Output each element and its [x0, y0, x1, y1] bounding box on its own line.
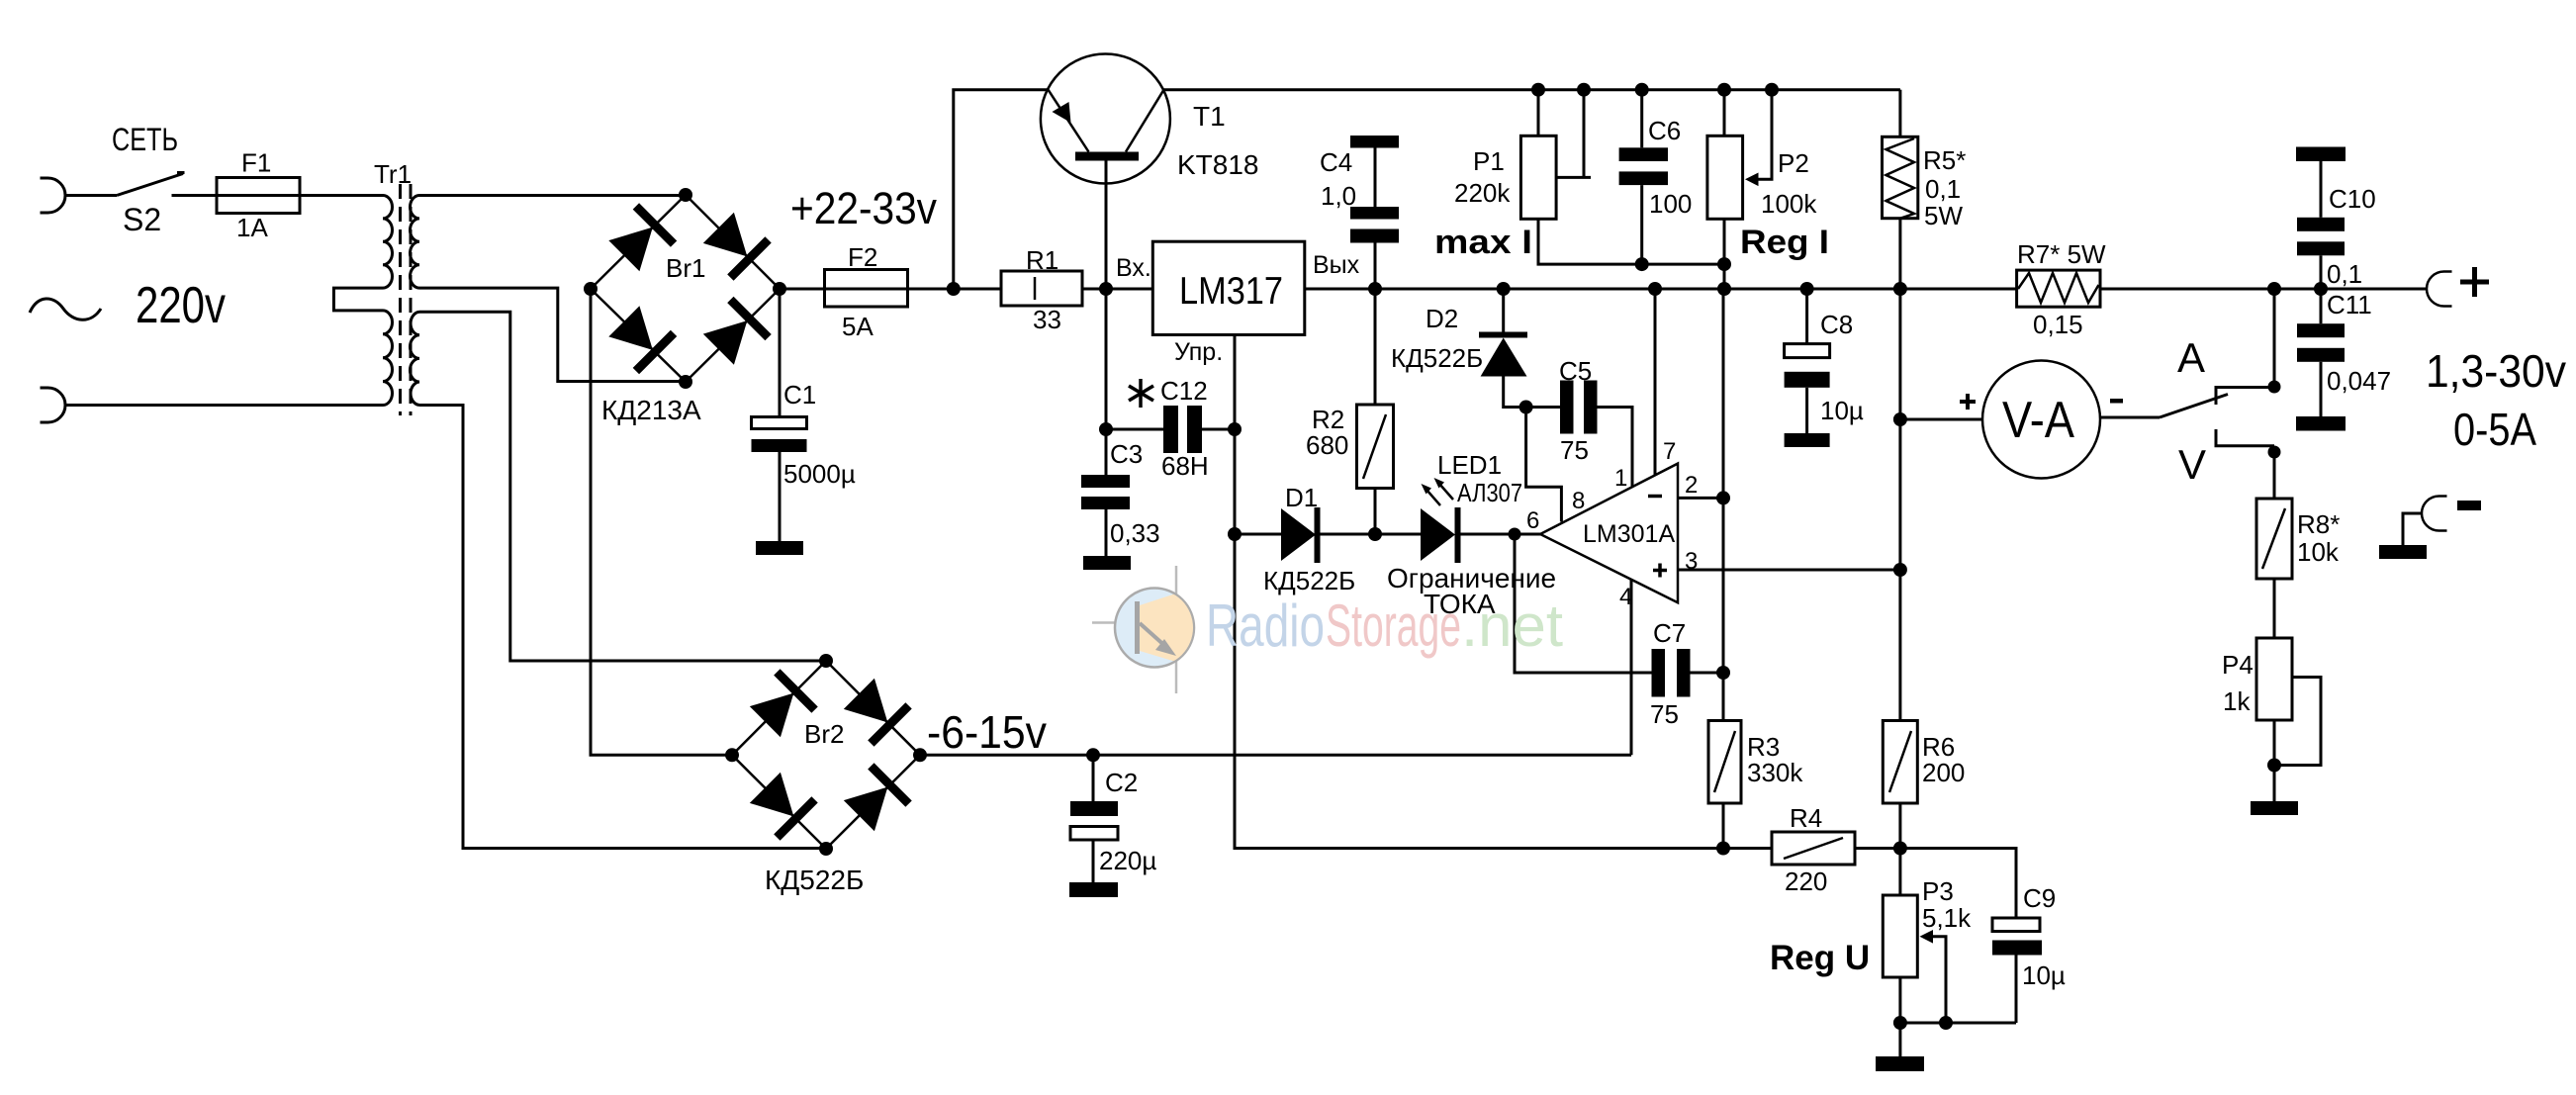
svg-text:+22-33v: +22-33v — [790, 183, 937, 233]
wire switch to F1 — [172, 194, 218, 197]
transistor T1 collector line — [1126, 90, 1164, 152]
svg-text:KT818: KT818 — [1177, 149, 1259, 180]
wire P2 wiper with arrow — [1757, 90, 1772, 180]
wire contact A up to rail — [2273, 289, 2276, 387]
svg-text:Reg U: Reg U — [1770, 939, 1870, 977]
potentiometer P2 — [1707, 136, 1743, 219]
resistor R4 — [1772, 832, 1855, 865]
wire secondary2 top to Br2 top — [419, 312, 826, 661]
svg-text:75: 75 — [1560, 435, 1589, 465]
svg-text:1k: 1k — [2223, 686, 2251, 716]
node P2 bottom link — [1717, 257, 1731, 271]
wire adj bus to R4 — [1235, 534, 1772, 849]
svg-text:220k: 220k — [1454, 178, 1511, 208]
node C12 left — [1099, 422, 1113, 436]
terminal input L1 — [41, 178, 66, 213]
svg-text:0,1: 0,1 — [1925, 174, 1961, 204]
wire minus terminal to ground — [2403, 513, 2423, 545]
main output wire — [1305, 288, 2017, 291]
svg-text:T1: T1 — [1193, 101, 1226, 132]
wire P1 top lead — [1537, 90, 1540, 137]
wire pin8 path — [1526, 408, 1562, 522]
LED LED1 arrows — [1422, 478, 1454, 505]
wire bus x1920 down — [1898, 289, 1901, 895]
resistor R8 — [2256, 499, 2292, 579]
svg-text:R1: R1 — [1026, 245, 1058, 275]
capacitor C8 top lead — [1805, 289, 1808, 344]
resistor R6 — [1883, 721, 1917, 804]
wire Br1 left vertex down to Br2 left — [591, 289, 732, 755]
svg-text:Br1: Br1 — [666, 253, 705, 283]
wire P3 bottom — [1898, 977, 1901, 1056]
fuse F1 — [217, 178, 300, 214]
transformer Tr1 secondary winding upper — [411, 196, 420, 289]
svg-text:C12: C12 — [1160, 376, 1208, 406]
resistor R7 box — [2017, 270, 2100, 307]
node P2 main rail — [1717, 282, 1731, 296]
node P2 wiper rail — [1765, 83, 1779, 97]
node C8 rail — [1800, 282, 1814, 296]
svg-text:C9: C9 — [2023, 883, 2056, 913]
transformer Tr1 primary winding upper — [383, 196, 393, 289]
diode D1 triangle — [1281, 508, 1316, 561]
logo crosshair — [1092, 566, 1176, 693]
ground at minus terminal — [2379, 545, 2427, 559]
svg-text:КД522Б: КД522Б — [1391, 343, 1483, 373]
svg-text:330k: 330k — [1747, 758, 1803, 787]
diode D2 bottom lead — [1504, 377, 1560, 408]
label minus input — [1648, 495, 1662, 499]
capacitor C10 upper lead — [2320, 161, 2323, 218]
wire R5 top lead — [1898, 90, 1901, 137]
node C10 rail — [2314, 282, 2328, 296]
capacitor C5 right lead to pin1 — [1598, 408, 1633, 488]
ground under C3 — [1083, 556, 1131, 570]
svg-text:P1: P1 — [1473, 146, 1505, 176]
wire pin 7 from rail — [1654, 289, 1657, 476]
bridge Br2 diamond edges — [732, 661, 920, 849]
wire V-A to switch — [2100, 416, 2160, 419]
svg-text:D1: D1 — [1285, 483, 1318, 512]
svg-text:7: 7 — [1663, 438, 1676, 465]
wire L1 to switch — [65, 194, 117, 197]
capacitor C10 lower lead — [2320, 255, 2323, 289]
switch contact A — [2216, 388, 2274, 406]
node pin6 junction — [1509, 528, 1521, 541]
svg-text:10k: 10k — [2297, 537, 2340, 567]
wire R3 bottom to bus — [1722, 803, 1725, 849]
svg-text:R8*: R8* — [2297, 509, 2340, 539]
wire C6 bottom to P2 bottom — [1642, 263, 1724, 266]
svg-text:C7: C7 — [1653, 618, 1686, 648]
diode Br2 bottom-left — [746, 769, 814, 837]
node pin8 junction — [1519, 401, 1533, 414]
wire junction up to T1 rail — [954, 90, 1049, 289]
diode Br1 bottom-left — [605, 303, 674, 371]
wire Br1 right to F2 — [780, 288, 825, 291]
node Br1 right — [773, 282, 786, 296]
svg-text:0-5A: 0-5A — [2453, 404, 2536, 455]
svg-text:C6: C6 — [1648, 116, 1681, 145]
capacitor C6 top lead — [1640, 90, 1643, 148]
node R2 bottom junction — [1368, 527, 1382, 541]
svg-text:1: 1 — [1614, 465, 1627, 492]
svg-text:C11: C11 — [2327, 290, 2372, 319]
capacitor C3 lower lead — [1105, 509, 1108, 556]
capacitor C7 right lead — [1691, 672, 1724, 675]
ground under C11 — [2296, 416, 2346, 431]
label meter minus — [2110, 399, 2123, 404]
ground under P3 — [1876, 1056, 1924, 1071]
svg-text:LED1: LED1 — [1437, 450, 1502, 480]
svg-text:220: 220 — [1785, 867, 1827, 896]
node P3 wiper bottom — [1939, 1016, 1953, 1030]
svg-text:Storage: Storage — [1326, 593, 1461, 659]
svg-text:0,33: 0,33 — [1110, 518, 1160, 548]
switch SA blade — [2160, 395, 2228, 418]
node D2 top — [1497, 282, 1511, 296]
svg-text:D2: D2 — [1426, 304, 1458, 333]
wire P2 top lead — [1723, 90, 1726, 137]
capacitor C12 plates — [1163, 406, 1178, 453]
wire Vx down to C3 — [1105, 289, 1108, 475]
capacitor C7 plates — [1652, 649, 1666, 697]
capacitor C5 plates — [1560, 381, 1574, 434]
capacitor C6 plates — [1619, 147, 1668, 161]
svg-text:P4: P4 — [2222, 650, 2254, 680]
svg-text:-6-15v: -6-15v — [927, 706, 1047, 758]
transformer Tr1 secondary winding lower — [410, 312, 419, 405]
svg-text:68Н: 68Н — [1161, 451, 1209, 481]
svg-text:200: 200 — [1922, 758, 1965, 787]
node Br1 top — [679, 188, 692, 202]
svg-text:5A: 5A — [842, 312, 874, 341]
svg-text:C4: C4 — [1320, 147, 1352, 177]
svg-text:100: 100 — [1649, 189, 1692, 219]
LED LED1 cathode bar — [1455, 507, 1461, 563]
svg-text:V: V — [2178, 441, 2206, 488]
svg-text:КД213А: КД213А — [601, 395, 701, 425]
logo transistor bar — [1135, 601, 1140, 654]
node Br1 left — [584, 282, 598, 296]
meter V-A circle — [1982, 361, 2100, 479]
svg-text:75: 75 — [1650, 699, 1679, 729]
svg-text:Br2: Br2 — [804, 719, 844, 749]
diode D2 triangle — [1481, 338, 1527, 377]
wire P2 bottom junction — [1723, 219, 1726, 289]
wire pin 3 — [1678, 569, 1900, 572]
diode D2 cathode bar — [1479, 332, 1527, 338]
wire D1 row — [1235, 533, 1281, 536]
node contact V — [2268, 446, 2281, 459]
capacitor C1 lower lead — [779, 452, 782, 541]
AC source symbol — [30, 299, 101, 319]
diode Br1 top-left — [605, 206, 674, 274]
capacitor C4 upper lead — [1374, 148, 1377, 208]
svg-text:C3: C3 — [1110, 439, 1143, 469]
wire T1 collector rail to R5 — [1164, 88, 1900, 91]
wire R2 bottom lead — [1374, 489, 1377, 535]
svg-text:P2: P2 — [1778, 148, 1809, 178]
wire secondary1 bottom to Br1 bottom — [419, 288, 686, 381]
transformer Tr1 primary jog — [333, 288, 383, 311]
capacitor C9 plate top — [1992, 918, 2040, 932]
transistor T1 base bar — [1075, 152, 1139, 161]
wire R8 to P4 — [2273, 579, 2276, 638]
svg-text:220µ: 220µ — [1099, 846, 1156, 875]
node Vx junction — [1099, 282, 1113, 296]
capacitor C10 plates — [2297, 218, 2345, 231]
node P2 top — [1717, 83, 1731, 97]
node Br2 bottom — [819, 842, 833, 856]
ground under P4 — [2251, 801, 2298, 815]
svg-text:33: 33 — [1033, 305, 1061, 334]
capacitor C12 left lead — [1106, 428, 1163, 431]
wire secondary top to Br1 top — [419, 194, 686, 197]
node Br2 right — [913, 748, 927, 762]
capacitor C1 plate bottom — [752, 439, 807, 452]
svg-text:LM317: LM317 — [1179, 270, 1283, 313]
wire to V-A meter — [1900, 418, 1982, 421]
ground under C8 — [1785, 433, 1830, 447]
svg-text:СЕТЬ: СЕТЬ — [112, 122, 178, 157]
wire R5 bottom lead — [1898, 219, 1901, 289]
svg-text:V-A: V-A — [2002, 392, 2074, 449]
wire P1 wiper — [1556, 90, 1591, 178]
wire L2 to Tr1 primary bottom — [65, 404, 383, 407]
svg-text:F2: F2 — [848, 242, 877, 272]
op-amp U1 LM317 box — [1152, 241, 1305, 334]
wire pin6 down to C7 — [1515, 534, 1652, 673]
node Vyx junction — [1368, 282, 1382, 296]
svg-text:Radio: Radio — [1206, 593, 1325, 659]
svg-text:10µ: 10µ — [1820, 396, 1864, 425]
capacitor C4 plates — [1350, 207, 1399, 220]
wire Упр lead down — [1234, 335, 1237, 535]
wire R1 to LM317 — [1082, 288, 1152, 291]
svg-text:R5*: R5* — [1923, 145, 1966, 175]
capacitor C2 plate top — [1070, 801, 1118, 816]
op-amp U2 LM301A triangle — [1540, 464, 1678, 603]
terminal input L2 — [41, 388, 66, 422]
wire P1 bottom link — [1538, 219, 1642, 264]
node Br2 left — [725, 748, 739, 762]
capacitor C1 plate top — [752, 417, 807, 429]
terminal output minus — [2422, 497, 2447, 531]
capacitor C2 lower lead — [1092, 840, 1095, 882]
svg-text:P3: P3 — [1922, 876, 1954, 906]
capacitor C3 plates — [1081, 475, 1130, 488]
svg-text:680: 680 — [1306, 430, 1348, 460]
node P1 top — [1531, 83, 1545, 97]
bridge Br1 diamond edges — [591, 195, 780, 382]
node Br2 top — [819, 654, 833, 668]
transistor T1 emitter line — [1049, 90, 1089, 152]
diode D2 top lead — [1502, 289, 1505, 337]
wire P3 bottom to C9 — [1900, 1022, 2016, 1025]
potentiometer P1 — [1520, 136, 1556, 219]
svg-text:10µ: 10µ — [2022, 960, 2066, 990]
label meter plus — [1960, 394, 1976, 410]
wire P2-bottom bus down to R3 — [1722, 289, 1725, 721]
transistor T1 base lead — [1105, 161, 1108, 290]
capacitor C2 plate bottom — [1070, 827, 1118, 841]
svg-text:.net: .net — [1461, 593, 1563, 659]
diode Br1 top-right — [699, 209, 768, 277]
capacitor C1 lead — [779, 289, 782, 417]
svg-text:100k: 100k — [1761, 189, 1817, 219]
svg-text:0,15: 0,15 — [2033, 310, 2083, 339]
svg-text:5,1k: 5,1k — [1922, 903, 1972, 933]
wire secondary2 bottom to Br2 bottom — [419, 406, 826, 849]
node F2-T1 junction — [947, 282, 961, 296]
node pin2 junction — [1716, 491, 1730, 504]
transistor T1 circle — [1041, 54, 1170, 184]
star symbol — [1129, 379, 1153, 408]
switch S2 blade — [117, 174, 183, 196]
wire R2 top lead — [1374, 289, 1377, 405]
svg-text:F1: F1 — [241, 148, 271, 178]
fuse F2 — [825, 270, 908, 308]
capacitor C10 ground bar — [2296, 147, 2346, 162]
label output plus sign — [2460, 267, 2489, 297]
label plus input — [1653, 564, 1667, 578]
svg-text:R4: R4 — [1790, 803, 1822, 833]
svg-text:АЛ307: АЛ307 — [1457, 478, 1522, 507]
wire F2 to R1 — [908, 288, 1002, 291]
svg-text:max I: max I — [1434, 224, 1532, 261]
svg-text:C5: C5 — [1559, 356, 1592, 386]
wire R7 to plus terminal — [2100, 288, 2427, 291]
LED LED1 triangle — [1421, 508, 1455, 561]
node D1 anode junction — [1228, 527, 1242, 541]
node C6 bottom junction — [1635, 257, 1649, 271]
node P3 bottom — [1893, 1016, 1907, 1030]
ground under C2 — [1069, 882, 1118, 897]
wire F1 to Tr1 — [300, 194, 383, 197]
resistor R5 box — [1883, 137, 1918, 218]
potentiometer P3 wiper — [1931, 937, 1946, 1023]
svg-text:8: 8 — [1572, 488, 1585, 514]
wire pin 2 — [1678, 497, 1723, 500]
capacitor C9 lower lead — [2015, 956, 2018, 1024]
diode D1 cathode bar — [1315, 507, 1321, 563]
svg-text:Reg I: Reg I — [1740, 224, 1829, 261]
resistor R5 zigzag — [1886, 138, 1915, 219]
capacitor C8 lower lead — [1805, 388, 1808, 433]
node pin3 junction — [1893, 563, 1907, 577]
resistor R7 zigzag — [2018, 273, 2099, 303]
node contact A — [2268, 381, 2281, 394]
wire negative rail — [920, 754, 1631, 757]
node R4 right junction — [1893, 842, 1907, 856]
wire pin 4 down to negative rail — [1630, 580, 1633, 755]
resistor R2 — [1357, 405, 1394, 489]
diode Br1 bottom-right — [699, 300, 768, 368]
svg-text:КД522Б: КД522Б — [1263, 566, 1355, 595]
diode Br2 bottom-right — [840, 766, 908, 834]
svg-text:5W: 5W — [1924, 201, 1963, 230]
wire LM317 out to node — [1305, 288, 1375, 291]
potentiometer P3 — [1883, 895, 1917, 977]
svg-text:C1: C1 — [783, 380, 816, 410]
svg-text:C2: C2 — [1105, 768, 1138, 797]
capacitor C12 right lead — [1202, 428, 1235, 431]
label output minus sign — [2457, 501, 2481, 510]
svg-text:2: 2 — [1685, 472, 1698, 499]
wire contact V down to R8 — [2273, 452, 2276, 499]
node C6 top rail — [1635, 83, 1649, 97]
transformer Tr1 core — [399, 184, 402, 415]
svg-text:0,1: 0,1 — [2327, 259, 2362, 289]
svg-text:Вых: Вых — [1313, 251, 1360, 279]
capacitor C6 bottom lead — [1640, 185, 1643, 264]
wire LED1 to opamp pin6 — [1461, 533, 1541, 536]
capacitor C8 plate top — [1785, 344, 1830, 358]
node V-A junction — [1893, 412, 1907, 426]
potentiometer P4 wiper — [2274, 678, 2321, 766]
node rail A — [2267, 282, 2281, 296]
svg-text:Упр.: Упр. — [1174, 338, 1223, 366]
switch contact V — [2216, 429, 2274, 446]
svg-text:КД522Б: КД522Б — [765, 865, 864, 895]
node C2 junction — [1086, 748, 1100, 762]
capacitor C11 lower lead — [2320, 362, 2323, 416]
capacitor C8 plate bottom — [1785, 372, 1830, 388]
svg-text:Tr1: Tr1 — [374, 159, 412, 189]
wire bus to C9 — [1900, 849, 2016, 919]
node R5 bottom rail — [1893, 282, 1907, 296]
capacitor C2 top lead — [1092, 755, 1095, 801]
svg-text:1,0: 1,0 — [1321, 181, 1356, 211]
node P4 bottom — [2267, 759, 2281, 773]
ground under C1 — [756, 541, 803, 555]
svg-text:LM301A: LM301A — [1583, 520, 1675, 548]
capacitor C11 plates — [2297, 323, 2345, 337]
node Br1 bottom — [679, 375, 692, 389]
svg-text:220v: 220v — [136, 277, 226, 334]
diode Br2 top-left — [746, 672, 814, 740]
svg-text:6: 6 — [1526, 507, 1539, 534]
node pin7 rail — [1648, 282, 1662, 296]
svg-text:5000µ: 5000µ — [783, 459, 856, 489]
svg-text:Вх.: Вх. — [1116, 254, 1151, 282]
svg-text:0,047: 0,047 — [2327, 366, 2391, 396]
transistor T1 emitter arrow — [1053, 102, 1071, 123]
capacitor C11 upper lead — [2320, 289, 2323, 323]
diode Br2 top-right — [840, 675, 908, 743]
node C12 right — [1228, 422, 1242, 436]
svg-text:R7* 5W: R7* 5W — [2017, 239, 2106, 269]
svg-text:1A: 1A — [236, 213, 268, 242]
svg-text:1,3-30v: 1,3-30v — [2426, 345, 2566, 397]
potentiometer P4 — [2256, 638, 2292, 720]
node P1 wiper rail — [1577, 83, 1591, 97]
resistor R1 — [1001, 271, 1082, 306]
node C7 right junction — [1716, 666, 1730, 680]
capacitor C4 lower lead — [1374, 243, 1377, 290]
logo circle — [1115, 589, 1194, 668]
logo arrow — [1140, 623, 1167, 648]
capacitor C9 plate bottom — [1992, 941, 2042, 956]
wire D1 to LED1 — [1321, 533, 1422, 536]
svg-text:S2: S2 — [123, 202, 161, 237]
wire R4 right to bus — [1855, 847, 1900, 850]
node R3 bottom junction — [1716, 842, 1730, 856]
capacitor C4 ground bar top — [1350, 136, 1399, 148]
svg-text:A: A — [2177, 334, 2205, 381]
resistor R3 — [1708, 721, 1741, 804]
